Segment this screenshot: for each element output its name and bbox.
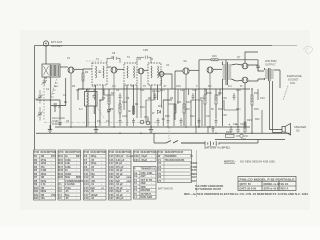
svg-text:Ca: Ca xyxy=(134,171,138,175)
svg-text:C5: C5 xyxy=(58,196,62,200)
parts table capacitors 2 xyxy=(109,150,132,200)
switch line xyxy=(154,133,205,143)
svg-text:el: el xyxy=(101,186,103,190)
svg-text:.05: .05 xyxy=(91,189,95,193)
resistor R13 xyxy=(183,89,185,126)
svg-text:80 pF: 80 pF xyxy=(116,161,123,165)
svg-text:25μF: 25μF xyxy=(116,189,122,193)
parts table resistors 2 xyxy=(58,150,81,200)
svg-text:SER № 43-87: SER № 43-87 xyxy=(264,187,281,191)
svg-text:THERMIO: THERMIO xyxy=(165,154,177,158)
trimmer C1 xyxy=(53,104,57,112)
svg-text:MODEL № 82: MODEL № 82 xyxy=(264,182,281,186)
svg-text:120k: 120k xyxy=(65,165,71,169)
text earphone socket xyxy=(287,74,302,85)
svg-text:47k: 47k xyxy=(41,165,46,169)
svg-text:DESCRIPTION: DESCRIPTION xyxy=(41,152,57,154)
svg-text:C17: C17 xyxy=(84,193,89,197)
svg-text:R15: R15 xyxy=(207,92,212,95)
svg-text:R16: R16 xyxy=(212,55,217,58)
svg-text:R19: R19 xyxy=(254,92,259,95)
svg-text:100μF: 100μF xyxy=(91,193,99,197)
svg-text:·: · xyxy=(126,183,127,186)
resistor R17 xyxy=(215,89,217,118)
svg-text:220k: 220k xyxy=(41,179,47,183)
svg-text:R14: R14 xyxy=(58,154,63,158)
capacitor C11 xyxy=(132,118,135,126)
svg-text:.05: .05 xyxy=(65,196,69,200)
svg-text:C2: C2 xyxy=(58,186,62,190)
capacitor C22 electrolytic xyxy=(236,126,239,133)
text print engravers xyxy=(195,185,224,191)
svg-text:R10: R10 xyxy=(34,186,39,190)
wire V3 plate xyxy=(144,69,148,71)
svg-text:470k: 470k xyxy=(41,158,47,162)
svg-text:SYM: SYM xyxy=(58,152,63,154)
svg-text:R8: R8 xyxy=(34,179,38,183)
svg-text:DESCRIPTION: DESCRIPTION xyxy=(141,152,157,154)
wire V5 plate to T4 xyxy=(213,68,222,70)
svg-text:C23: C23 xyxy=(260,97,265,100)
svg-text:4.7k: 4.7k xyxy=(41,182,47,186)
svg-text:20%: 20% xyxy=(51,154,57,158)
wire IF2 to V3 xyxy=(136,69,138,71)
svg-text:C22: C22 xyxy=(240,123,245,126)
svg-text:6AT5: 6AT5 xyxy=(190,168,197,172)
svg-text:R15: R15 xyxy=(58,158,63,162)
svg-text:BATT BIAS 9V: BATT BIAS 9V xyxy=(158,188,173,191)
svg-text:C19: C19 xyxy=(222,114,227,117)
svg-text:6.2: 6.2 xyxy=(208,85,212,88)
resistor R6 xyxy=(133,106,135,114)
svg-text:·: · xyxy=(101,162,102,165)
svg-text:680k: 680k xyxy=(41,189,47,193)
svg-text:W1: W1 xyxy=(158,105,162,108)
svg-text:TRIMMERS &: TRIMMERS & xyxy=(141,169,156,171)
tube V7 xyxy=(242,77,248,83)
parts table capacitors 3 xyxy=(134,150,157,162)
svg-text:·: · xyxy=(76,169,77,172)
svg-text:R19: R19 xyxy=(254,108,259,111)
svg-text:·: · xyxy=(126,197,127,200)
wire xyxy=(88,85,168,126)
svg-text:C13: C13 xyxy=(84,179,89,183)
svg-text:EXT ANT: EXT ANT xyxy=(51,40,63,44)
svg-text:·: · xyxy=(126,169,127,172)
svg-text:C16: C16 xyxy=(192,89,197,92)
svg-text:8.4: 8.4 xyxy=(228,85,232,88)
svg-text:SOCKET: SOCKET xyxy=(288,77,299,81)
tube V5 (driver) xyxy=(207,67,213,126)
svg-text:C15: C15 xyxy=(176,85,181,88)
svg-text:3Ω: 3Ω xyxy=(296,128,299,132)
svg-text:1M: 1M xyxy=(41,175,45,179)
dashed ladder link below antenna xyxy=(50,79,58,101)
svg-text:Cb: Cb xyxy=(134,174,138,178)
svg-text:C10: C10 xyxy=(122,115,127,118)
wire V1 plate xyxy=(74,68,83,70)
svg-text:OSC COIL: OSC COIL xyxy=(141,171,154,175)
svg-text:·: · xyxy=(101,176,102,179)
svg-text:5A: 5A xyxy=(184,60,187,63)
capacitor C14 xyxy=(180,118,183,126)
svg-text:4.0: 4.0 xyxy=(112,85,116,88)
svg-text:.05 μF: .05 μF xyxy=(116,186,124,190)
svg-text:R17: R17 xyxy=(58,165,63,169)
wire xyxy=(35,98,37,100)
svg-text:R18: R18 xyxy=(218,108,223,111)
svg-text:PHILCO MODEL P 82 PORTABLE: PHILCO MODEL P 82 PORTABLE xyxy=(240,177,295,181)
capacitor C12a xyxy=(154,93,157,100)
svg-text:.05 μF: .05 μF xyxy=(116,172,124,176)
capacitor C12 xyxy=(157,118,160,126)
svg-text:·: · xyxy=(151,159,152,162)
title block xyxy=(238,177,296,191)
resistor R5 xyxy=(119,100,121,118)
svg-text:C7: C7 xyxy=(84,158,88,162)
svg-text:8μF: 8μF xyxy=(91,186,96,190)
wire det out xyxy=(164,74,172,89)
svg-text:NO NEW DESIGN 4/58 1960.: NO NEW DESIGN 4/58 1960. xyxy=(240,160,276,164)
IF transformer T1 (dashed can) xyxy=(92,63,107,126)
svg-text:·: · xyxy=(151,175,152,178)
resistor R2 xyxy=(82,69,84,89)
svg-text:R11: R11 xyxy=(177,101,182,104)
capacitor C20 xyxy=(233,93,236,100)
svg-text:C16: C16 xyxy=(109,158,114,162)
svg-text:R10: R10 xyxy=(165,115,170,118)
svg-text:·: · xyxy=(101,155,102,158)
capacitor C9 xyxy=(119,93,122,100)
trimmer C2 below coil xyxy=(42,77,48,86)
svg-text:SYM: SYM xyxy=(84,152,89,154)
svg-text:R2: R2 xyxy=(34,158,38,162)
svg-text:.07: .07 xyxy=(163,85,167,88)
svg-text:TUNING: TUNING xyxy=(52,123,62,126)
svg-text:R9: R9 xyxy=(34,182,38,186)
svg-text:.01: .01 xyxy=(91,168,95,172)
text output trans xyxy=(265,59,277,66)
rail B+ top xyxy=(78,88,250,90)
svg-text:C20: C20 xyxy=(109,172,114,176)
svg-text:C17: C17 xyxy=(109,161,114,165)
svg-text:.05: .05 xyxy=(65,189,69,193)
dashed link from osc coil xyxy=(97,107,104,118)
svg-text:VOL: VOL xyxy=(144,116,150,119)
pilot lamp xyxy=(240,134,243,137)
wire V2 plate xyxy=(117,68,124,70)
svg-text:C12: C12 xyxy=(84,175,89,179)
svg-text:2ND: 2ND xyxy=(141,181,146,185)
svg-text:C25: C25 xyxy=(109,189,114,193)
svg-text:1M: 1M xyxy=(186,108,189,111)
svg-text:150p: 150p xyxy=(65,186,71,190)
svg-text:DRIVER: DRIVER xyxy=(141,188,151,192)
svg-text:R13: R13 xyxy=(34,196,39,200)
svg-text:1A57: 1A57 xyxy=(190,175,197,179)
svg-text:C18: C18 xyxy=(109,165,114,169)
svg-text:C19: C19 xyxy=(109,168,114,172)
svg-text:C9: C9 xyxy=(84,165,88,169)
svg-text:REF—№ 5041 RENFREW ELECTRICAL: REF—№ 5041 RENFREW ELECTRICAL CO. LTD. 2… xyxy=(184,192,309,196)
svg-text:Cond: Cond xyxy=(126,154,133,158)
svg-text:.01: .01 xyxy=(91,182,95,186)
svg-text:ROD AER: ROD AER xyxy=(141,195,153,199)
svg-text:C20: C20 xyxy=(236,89,241,92)
text gang cap note xyxy=(52,117,65,126)
svg-text:330k: 330k xyxy=(41,172,47,176)
svg-text:R16: R16 xyxy=(58,161,63,165)
svg-text:NET: NET xyxy=(76,154,82,158)
wire xyxy=(100,95,238,110)
resistor R4 xyxy=(108,89,110,126)
ground G1 xyxy=(48,125,52,133)
resistor R20 xyxy=(244,122,246,132)
svg-text:R18: R18 xyxy=(58,168,63,172)
svg-text:1ST IF TR: 1ST IF TR xyxy=(141,178,153,182)
svg-text:.01 μF: .01 μF xyxy=(116,182,124,186)
svg-text:R22: R22 xyxy=(255,118,260,121)
svg-text:·: · xyxy=(101,197,102,200)
svg-text:C16: C16 xyxy=(84,189,89,193)
capacitor C21 electrolytic xyxy=(229,126,232,133)
parts table capacitors 1 xyxy=(84,150,107,200)
svg-text:SYM: SYM xyxy=(109,152,114,154)
svg-text:·: · xyxy=(151,189,152,192)
capacitor C13 xyxy=(167,118,170,126)
tube V1 xyxy=(68,67,74,126)
svg-text:·: · xyxy=(51,176,52,179)
svg-text:SPEAKER: SPEAKER xyxy=(294,125,306,129)
svg-text:1M: 1M xyxy=(41,154,45,158)
svg-text:C18: C18 xyxy=(84,196,89,200)
svg-text:400p: 400p xyxy=(91,154,97,158)
svg-text:10k: 10k xyxy=(41,196,46,200)
svg-text:ANT: ANT xyxy=(141,174,147,178)
svg-text:SOCKET: SOCKET xyxy=(51,44,62,48)
svg-text:C21: C21 xyxy=(233,123,238,126)
osc coil L2 xyxy=(85,89,98,127)
gang mechanical link xyxy=(44,121,160,123)
svg-text:470 pF: 470 pF xyxy=(116,165,125,169)
svg-text:1A57: 1A57 xyxy=(190,179,197,183)
wire socket down xyxy=(45,46,47,64)
svg-text:QNTY. 50: QNTY. 50 xyxy=(240,182,252,186)
volume pot R12 xyxy=(140,118,150,125)
parts table valves xyxy=(158,150,192,183)
capacitor C15 xyxy=(198,118,201,126)
svg-text:C24: C24 xyxy=(109,186,114,190)
svg-text:EARPHONE: EARPHONE xyxy=(287,74,302,78)
svg-text:C17: C17 xyxy=(206,115,211,118)
svg-text:2.2M: 2.2M xyxy=(41,168,47,172)
diode D1 xyxy=(158,110,161,114)
tube V2 xyxy=(111,67,117,126)
capacitor C16a xyxy=(192,93,195,100)
svg-text:CONDENSERS: CONDENSERS xyxy=(65,179,83,183)
ground G2 xyxy=(94,126,98,133)
ground G3 xyxy=(149,126,153,133)
svg-text:·: · xyxy=(151,155,152,158)
svg-text:C23: C23 xyxy=(109,182,114,186)
svg-text:DESCRIPTION: DESCRIPTION xyxy=(91,152,107,154)
wires output to speaker xyxy=(270,70,283,133)
pencil swirl mark top right xyxy=(303,46,313,54)
svg-text:R19: R19 xyxy=(58,172,63,176)
svg-text:R17: R17 xyxy=(218,92,223,95)
svg-text:.01μF: .01μF xyxy=(141,154,148,158)
svg-text:·: · xyxy=(76,190,77,193)
svg-text:DESCRIPTION: DESCRIPTION xyxy=(65,152,81,154)
svg-text:.05: .05 xyxy=(91,165,95,169)
svg-text:C24: C24 xyxy=(241,138,246,141)
svg-text:R20: R20 xyxy=(58,175,63,179)
wire xyxy=(178,89,262,133)
svg-text:1M: 1M xyxy=(41,186,45,190)
variable capacitor C1B gang section xyxy=(37,107,43,121)
wire L1 to V1 xyxy=(60,66,68,68)
resistor R15 xyxy=(204,89,206,126)
svg-text:TRANSCODERS: TRANSCODERS xyxy=(165,158,185,162)
wire vertical divider right of tables xyxy=(196,150,198,197)
svg-text:56Ω: 56Ω xyxy=(65,175,70,179)
rail AVC long xyxy=(55,126,250,128)
diode detector V4 xyxy=(159,72,164,109)
variable capacitor C1A gang section xyxy=(37,90,43,104)
wire to IF1 xyxy=(78,69,92,89)
cap C19 xyxy=(256,66,260,71)
svg-text:.04: .04 xyxy=(161,118,165,121)
svg-text:100k: 100k xyxy=(41,161,47,165)
svg-text:2M: 2M xyxy=(41,193,45,197)
svg-text:C21: C21 xyxy=(109,175,114,179)
svg-text:.05: .05 xyxy=(91,175,95,179)
svg-text:C22: C22 xyxy=(109,179,114,183)
svg-text:·: · xyxy=(101,190,102,193)
svg-text:.02: .02 xyxy=(91,196,95,200)
svg-text:160 pF: 160 pF xyxy=(116,196,125,200)
tube V3 xyxy=(138,68,144,118)
svg-text:R1: R1 xyxy=(34,154,38,158)
svg-text:OUTPUT: OUTPUT xyxy=(141,192,152,196)
svg-text:.02 μF: .02 μF xyxy=(116,168,124,172)
svg-text:8μF: 8μF xyxy=(116,175,121,179)
svg-text:C3: C3 xyxy=(58,189,62,193)
svg-text:R11: R11 xyxy=(34,189,39,193)
svg-text:SYM: SYM xyxy=(158,152,163,154)
svg-text:4.0: 4.0 xyxy=(92,85,96,88)
svg-text:R13: R13 xyxy=(186,101,191,104)
svg-text:R10: R10 xyxy=(140,106,145,109)
svg-text:DATE 28-3-60: DATE 28-3-60 xyxy=(240,187,257,191)
resistor R11 xyxy=(174,104,176,113)
svg-text:·: · xyxy=(51,183,52,186)
svg-text:C14: C14 xyxy=(84,182,89,186)
svg-text:REV A: REV A xyxy=(281,187,289,191)
rail mid segments xyxy=(36,99,172,101)
border frame left xyxy=(34,46,36,151)
svg-text:P43B: P43B xyxy=(190,165,197,169)
svg-text:·: · xyxy=(51,169,52,172)
svg-text:·: · xyxy=(151,182,152,185)
svg-text:VOL: VOL xyxy=(51,193,57,197)
svg-text:C26: C26 xyxy=(109,193,114,197)
fuse box xyxy=(226,134,235,137)
tube V5A (AF amp) xyxy=(183,68,189,126)
svg-text:R14: R14 xyxy=(200,97,205,100)
svg-text:200Ω: 200Ω xyxy=(65,172,71,176)
svg-text:·: · xyxy=(101,169,102,172)
svg-text:·: · xyxy=(76,197,77,200)
svg-text:·: · xyxy=(51,162,52,165)
capacitor C17 xyxy=(212,126,215,133)
svg-text:R5: R5 xyxy=(34,168,38,172)
capacitor C3 xyxy=(59,120,62,126)
wire node xyxy=(51,78,66,106)
tuning gang dashed link xyxy=(43,82,45,120)
IF transformer T2 (dashed can) xyxy=(124,63,137,126)
svg-text:BATTERY 4 x SP 611: BATTERY 4 x SP 611 xyxy=(205,145,231,149)
svg-text:DESCRIPTION W: DESCRIPTION W xyxy=(165,152,184,154)
svg-text:8μF: 8μF xyxy=(116,179,121,183)
svg-text:BLYTHSWOOD COURT: BLYTHSWOOD COURT xyxy=(195,188,222,191)
svg-text:elec: elec xyxy=(126,175,132,179)
svg-text:R3: R3 xyxy=(34,161,38,165)
padder trimmer C10 xyxy=(107,109,111,113)
svg-text:·: · xyxy=(51,190,52,193)
svg-text:100k: 100k xyxy=(65,158,71,162)
svg-text:2 GANG: 2 GANG xyxy=(65,182,75,186)
svg-text:·: · xyxy=(101,183,102,186)
svg-text:·: · xyxy=(76,162,77,165)
svg-text:2ND 5052: 2ND 5052 xyxy=(265,59,277,63)
svg-text:150p: 150p xyxy=(91,161,97,165)
svg-text:R7: R7 xyxy=(34,175,38,179)
wires push-pull xyxy=(236,52,264,126)
svg-text:3.3k: 3.3k xyxy=(65,161,71,165)
text EXT ANT SOCKET xyxy=(51,40,63,48)
svg-text:R23: R23 xyxy=(226,131,231,134)
battery B1 cells xyxy=(181,140,258,146)
svg-text:.001: .001 xyxy=(91,179,97,183)
svg-text:50p: 50p xyxy=(91,172,96,176)
svg-text:·: · xyxy=(126,162,127,165)
svg-text:C11: C11 xyxy=(140,89,145,92)
text speaker xyxy=(294,125,306,132)
output transformer T5 xyxy=(265,68,274,81)
svg-text:SH 1/1: SH 1/1 xyxy=(281,182,289,186)
svg-text:C1B: C1B xyxy=(143,49,148,52)
antenna rod coil L1 xyxy=(42,64,60,77)
wire V5A grid xyxy=(175,71,183,120)
svg-text:SYM: SYM xyxy=(34,152,39,154)
svg-text:R6: R6 xyxy=(34,172,38,176)
capacitor C10 xyxy=(119,118,122,126)
tube V6 xyxy=(242,63,248,69)
capacitor C16 xyxy=(215,118,218,126)
switch S1 xyxy=(166,141,178,144)
svg-text:C10: C10 xyxy=(122,101,127,104)
svg-text:.05: .05 xyxy=(91,158,95,162)
speaker LS1 xyxy=(282,124,291,136)
wire earphone xyxy=(283,86,288,100)
svg-text:NOTICE:-: NOTICE:- xyxy=(224,160,236,164)
parts table resistors 1 xyxy=(34,150,56,200)
svg-text:C13: C13 xyxy=(160,89,165,92)
svg-text:·: · xyxy=(51,197,52,200)
wire xyxy=(163,89,206,126)
wire V5A plate xyxy=(189,69,199,71)
